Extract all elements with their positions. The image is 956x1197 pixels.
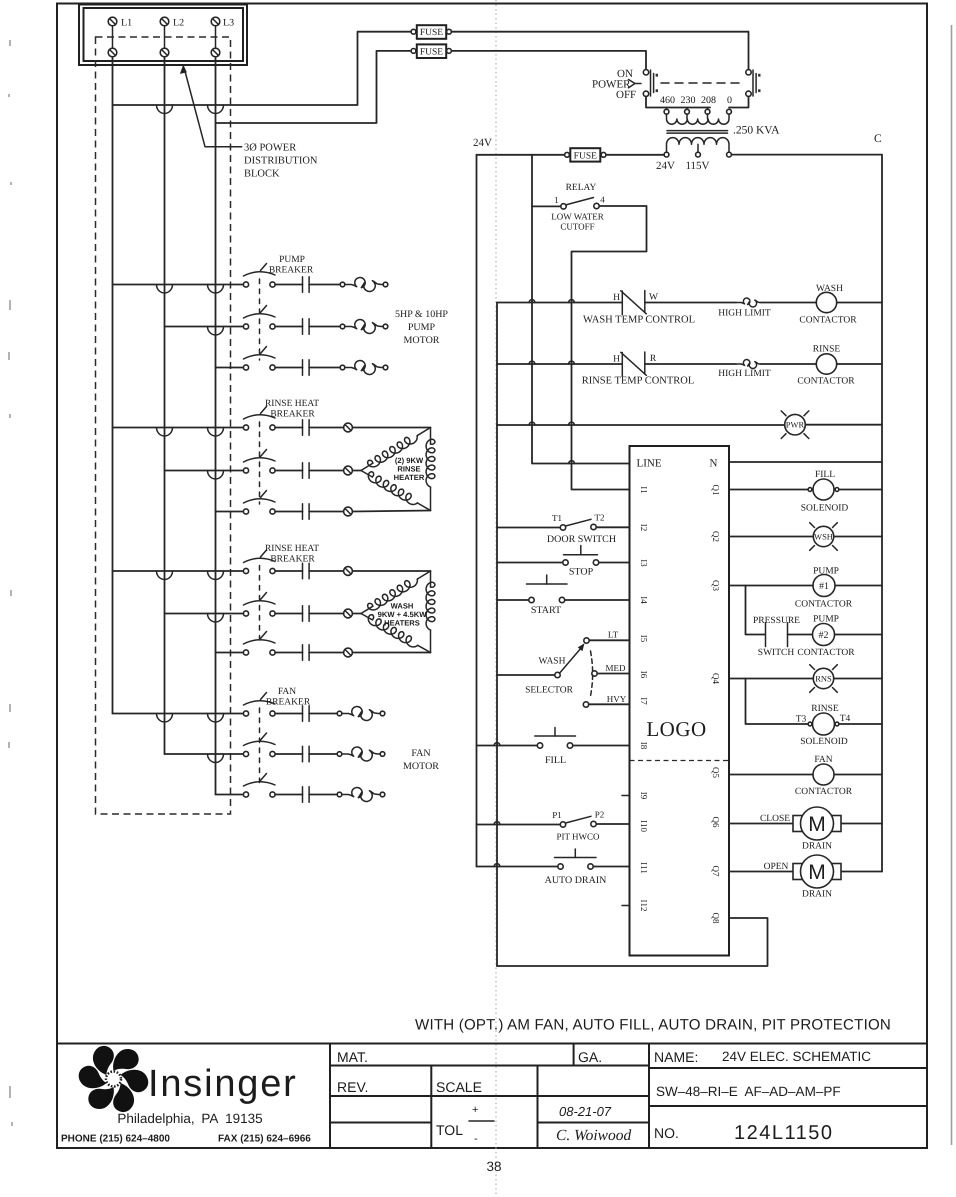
svg-text:Q4: Q4 [711, 673, 721, 684]
stub I9 [622, 795, 630, 797]
fan contact pole2 [275, 746, 337, 762]
wire secondary right to C rail [731, 155, 882, 872]
door switch row wire [497, 526, 630, 528]
svg-text:NO.: NO. [654, 1125, 679, 1141]
wire L1 bus vertical [112, 57, 114, 714]
svg-text:Q3: Q3 [711, 580, 721, 591]
svg-text:HEATERS: HEATERS [384, 619, 420, 628]
rinse heat contact pole2 [275, 463, 343, 479]
svg-text:AUTO DRAIN: AUTO DRAIN [545, 875, 607, 886]
label TOL [436, 1104, 494, 1145]
svg-text:4: 4 [600, 195, 605, 205]
Q8 return wire [497, 918, 768, 966]
svg-text:Q7: Q7 [711, 866, 721, 877]
rinse heater delta coil top side [361, 428, 431, 471]
svg-text:I2: I2 [639, 524, 649, 532]
wire row6 to delta [352, 511, 430, 512]
pump contact pole1 [275, 277, 340, 293]
start button row wire [497, 599, 630, 601]
insinger logo pinwheel [75, 1042, 152, 1116]
svg-text:T1: T1 [552, 513, 562, 523]
label PUMP BREAKER [269, 255, 314, 276]
start pushbutton NO [527, 575, 568, 603]
strap L1 [112, 26, 114, 48]
svg-text:Q5: Q5 [711, 767, 721, 778]
svg-text:Q6: Q6 [711, 817, 721, 828]
svg-text:HIGH LIMIT: HIGH LIMIT [718, 369, 771, 379]
svg-text:P2: P2 [595, 810, 605, 820]
svg-text:PRESSURE: PRESSURE [753, 616, 800, 626]
svg-text:460: 460 [660, 95, 675, 106]
svg-text:PHONE (215) 624–4800: PHONE (215) 624–4800 [61, 1134, 170, 1145]
rinse heat row6 bus wire [216, 511, 244, 513]
pump2 row wire [788, 634, 883, 636]
svg-text:CONTACTOR: CONTACTOR [797, 377, 855, 387]
wire 24V left rail [476, 155, 478, 867]
label POWER with pointer [592, 79, 641, 91]
svg-text:24V ELEC. SCHEMATIC: 24V ELEC. SCHEMATIC [722, 1049, 871, 1064]
pump breaker pole1 [243, 264, 275, 288]
svg-text:HVY: HVY [607, 694, 627, 704]
wash heater delta bottom side [361, 614, 431, 653]
power switch ON/OFF left pole [643, 70, 658, 97]
svg-text:BLOCK: BLOCK [244, 169, 280, 180]
svg-text:NAME:: NAME: [654, 1049, 698, 1065]
terminal row7 [344, 567, 353, 576]
svg-text:FUSE: FUSE [420, 28, 443, 38]
rinse temp control contact [621, 352, 647, 376]
fuse F1 [411, 25, 451, 39]
svg-text:CONTACTOR: CONTACTOR [795, 600, 853, 610]
svg-text:L1: L1 [121, 18, 132, 29]
svg-text:C: C [874, 133, 882, 145]
wire L3 bus vertical [215, 57, 217, 795]
svg-text:0: 0 [727, 95, 732, 106]
auto drain row wire [477, 866, 630, 868]
Q3 pump1 row wire [729, 585, 882, 587]
wash heat contact pole2 [275, 606, 343, 622]
terminal row4 [344, 423, 353, 432]
svg-text:RNS: RNS [815, 674, 832, 684]
svg-text:124L1150: 124L1150 [734, 1122, 834, 1144]
svg-text:#1: #1 [819, 581, 829, 592]
svg-text:PUMP: PUMP [813, 567, 839, 577]
wash selector row wire [497, 674, 555, 676]
svg-text:P1: P1 [552, 810, 562, 820]
svg-text:FUSE: FUSE [420, 47, 443, 57]
svg-text:FAN: FAN [411, 748, 430, 759]
LOGO PLC box [630, 446, 730, 956]
fan contact pole3 [275, 787, 337, 803]
svg-text:Q1: Q1 [711, 485, 721, 496]
fan contact pole1 [275, 706, 337, 722]
svg-text:PWR: PWR [786, 420, 805, 430]
wash selector common and arrow [555, 643, 585, 678]
fill pushbutton NO [535, 728, 576, 749]
stop pushbutton NC [563, 546, 599, 566]
transformer T1 primary taps [664, 108, 731, 115]
fan breaker pole3 [243, 774, 275, 798]
pump breaker pole tie dashed [259, 279, 261, 360]
svg-text:DISTRIBUTION: DISTRIBUTION [244, 156, 318, 167]
hop L3 row8 [208, 614, 224, 623]
svg-text:MOTOR: MOTOR [403, 761, 439, 772]
wire switch right pole to tap 0 [729, 97, 749, 108]
transformer T1 secondary winding [667, 138, 730, 152]
svg-text:RINSE HEAT: RINSE HEAT [265, 399, 319, 409]
svg-text:Insinger: Insinger [148, 1063, 298, 1105]
rinse heat breaker pole2 [243, 450, 275, 474]
wash contactor coil [816, 292, 836, 312]
wash heat contact pole1 [275, 563, 343, 579]
wire row7 to delta [352, 570, 430, 572]
wire rinse row middle [645, 363, 736, 365]
hop L3 row4 [208, 428, 224, 437]
hop at rail B pwr row [529, 422, 535, 425]
label LOW WATER CUTOFF [551, 212, 603, 232]
svg-text:115V: 115V [685, 160, 709, 172]
svg-text:CONTACTOR: CONTACTOR [795, 787, 853, 797]
pump1 contactor coil [813, 575, 835, 597]
svg-text:OFF: OFF [616, 89, 636, 101]
terminal row9 [344, 648, 353, 657]
svg-text:W: W [649, 293, 658, 303]
fan overload pole3 [337, 787, 385, 801]
svg-text:T4: T4 [840, 714, 851, 724]
relay contact low water cutoff [532, 198, 599, 210]
wash heat breaker pole2 [243, 593, 275, 617]
terminal row8 [344, 609, 353, 618]
branch wire to pump2 row [746, 586, 766, 635]
label 2x 9KW RINSE HEATER [394, 456, 425, 482]
high limit rinse [737, 360, 762, 369]
svg-text:FILL: FILL [815, 470, 835, 480]
svg-text:PIT HWCO: PIT HWCO [556, 832, 600, 842]
svg-text:PUMP: PUMP [408, 322, 436, 333]
wash heater delta right side [426, 571, 435, 653]
svg-text:08-21-07: 08-21-07 [559, 1104, 612, 1119]
pump contact pole3 [275, 360, 340, 376]
auto drain pushbutton NO [555, 849, 597, 869]
svg-text:RINSE TEMP CONTROL: RINSE TEMP CONTROL [582, 376, 695, 387]
wire rail B from fuse wire to LINE row [532, 155, 630, 464]
hop L2 row10 [157, 714, 173, 723]
wire common rail D [496, 303, 498, 967]
wash heater delta top side [361, 571, 431, 614]
svg-text:LOW WATER: LOW WATER [551, 212, 603, 222]
svg-text:1: 1 [554, 195, 559, 205]
svg-text:SELECTOR: SELECTOR [525, 686, 574, 696]
label phone fax [61, 1134, 311, 1145]
svg-text:CONTACTOR: CONTACTOR [799, 316, 857, 326]
hop at common rail pit row [494, 822, 500, 825]
svg-text:CLOSE: CLOSE [760, 814, 790, 824]
svg-text:208: 208 [701, 95, 716, 106]
strap L3 [215, 26, 217, 48]
hop L3 row5 [208, 471, 224, 480]
door switch T1 T2 [560, 519, 596, 530]
wash heat row9 bus wire [216, 652, 244, 654]
svg-text:230: 230 [681, 95, 696, 106]
wire wash contactor to C rail [837, 302, 882, 304]
svg-text:SW–48–RI–E AF–AD–AM–PF: SW–48–RI–E AF–AD–AM–PF [656, 1084, 841, 1099]
svg-text:I3: I3 [639, 559, 649, 567]
terminal L2 bottom [160, 48, 169, 57]
svg-text:FAX (215) 624–6966: FAX (215) 624–6966 [218, 1134, 311, 1145]
fuse F3 [565, 148, 606, 161]
terminal L1 top [108, 17, 117, 26]
rinse heat contact pole3 [275, 504, 343, 520]
crossover hop L2 on L1 feed [157, 105, 173, 114]
scan fold dotted line [495, 0, 497, 1197]
fan overload pole2 [337, 747, 385, 761]
hop L3 row1 [208, 285, 224, 294]
pressure switch contact [766, 623, 788, 647]
svg-text:GA.: GA. [578, 1049, 602, 1065]
pump2 contactor coil [813, 624, 835, 646]
fill solenoid [808, 479, 839, 500]
wire fuse1 to switch right pole [451, 32, 748, 70]
svg-text:-: - [474, 1133, 478, 1145]
N row wire [729, 461, 882, 463]
svg-text:I5: I5 [639, 635, 649, 643]
hop L3 row11 [208, 754, 224, 763]
hop at rail B rinse row [529, 361, 535, 364]
fill button row wire [477, 745, 630, 747]
svg-text:L3: L3 [223, 18, 234, 29]
open drain motor [793, 855, 841, 888]
rinse heat contact pole1 [275, 420, 343, 436]
svg-text:Philadelphia, PA 19135: Philadelphia, PA 19135 [117, 1111, 262, 1126]
transformer T1 primary winding [667, 114, 730, 124]
hop L2 row1 [157, 285, 173, 294]
svg-text:SOLENOID: SOLENOID [801, 504, 849, 514]
fan breaker pole1 [243, 693, 275, 717]
svg-text:FILL: FILL [545, 755, 566, 766]
Q7 open drain row wire [729, 871, 882, 873]
hop at relay rail wash row [569, 300, 575, 303]
pump breaker pole2 [243, 306, 275, 330]
fan contactor coil [813, 764, 834, 785]
wash temp control row wire left [497, 302, 622, 304]
svg-text:RINSE: RINSE [813, 345, 841, 355]
label RINSE HEAT BREAKER [265, 399, 319, 420]
crossover hop on LINE row at relay rail [569, 461, 575, 464]
svg-text:DRAIN: DRAIN [802, 890, 832, 900]
Q6 close drain row wire [729, 823, 882, 825]
transformer secondary terminals [664, 152, 731, 157]
selector LT contact [584, 638, 630, 643]
wire switch left pole to primary taps bar [646, 97, 710, 108]
wire wash row middle [645, 302, 736, 304]
svg-text:Q8: Q8 [711, 913, 721, 924]
wire row8 to delta [352, 613, 361, 615]
hop at relay rail pwr row [569, 422, 575, 425]
svg-text:CUTOFF: CUTOFF [560, 222, 594, 232]
leader arrow to distribution block [180, 65, 242, 147]
svg-text:SOLENOID: SOLENOID [800, 737, 848, 747]
rinse heat breaker2 pole tie dashed [259, 566, 261, 646]
svg-text:LINE: LINE [637, 458, 662, 470]
pump overload pole3 [340, 360, 388, 374]
pump overload pole1 [340, 277, 388, 291]
selector HVY contact [583, 702, 629, 707]
scan page right edge line [951, 25, 953, 1145]
rinse contactor coil [816, 354, 836, 374]
svg-text:I9: I9 [639, 792, 649, 800]
terminal row6 [344, 507, 353, 516]
svg-text:STOP: STOP [569, 567, 594, 578]
3-phase power distribution block inner box [84, 8, 244, 61]
svg-text:+: + [472, 1104, 478, 1116]
svg-text:#2: #2 [819, 630, 829, 641]
pit hwco row wire [477, 823, 630, 826]
rinse heat row5 bus wire [165, 470, 244, 472]
wash heat contact pole3 [275, 645, 343, 661]
crossover hop L3 on L1 feed [208, 105, 224, 114]
hop at rail B wash row [529, 300, 535, 303]
svg-text:PUMP: PUMP [279, 255, 305, 265]
scan specks left margin [9, 40, 12, 1126]
svg-text:MOTOR: MOTOR [404, 335, 440, 346]
svg-text:24V: 24V [473, 137, 492, 149]
svg-text:FAN: FAN [814, 755, 832, 765]
pit hwco switch P1 P2 [560, 816, 596, 827]
svg-text:H: H [613, 293, 620, 303]
pump breaker pole3 [243, 347, 275, 371]
wire fuse2 to switch left pole [451, 51, 646, 70]
pump row2 bus wire [165, 326, 244, 328]
svg-text:3Ø POWER: 3Ø POWER [244, 143, 296, 154]
Q1 fill solenoid row wire [729, 489, 882, 491]
svg-text:Q2: Q2 [711, 531, 721, 542]
Q2 wsh lamp row wire [729, 536, 882, 538]
svg-text:I1: I1 [639, 486, 649, 494]
wire row4 to delta [352, 427, 430, 429]
svg-text:38: 38 [486, 1159, 501, 1174]
wire relay output to I1 rail [572, 206, 647, 490]
hop L3 row7 [208, 571, 224, 580]
terminal L1 bottom [108, 48, 117, 57]
pwr lamp row wire left [497, 424, 784, 426]
label FAN BREAKER [266, 687, 311, 708]
svg-text:HIGH LIMIT: HIGH LIMIT [718, 309, 771, 319]
hop at common rail fill row [494, 743, 500, 746]
svg-text:C. Woiwood: C. Woiwood [556, 1127, 631, 1144]
label 3-phase power distribution block [244, 143, 318, 180]
rinse temp control row wire left [497, 363, 622, 365]
wire rinse solenoid to C rail [839, 723, 882, 725]
hop L3 row10 [208, 714, 224, 723]
svg-text:WITH (OPT.) AM FAN, AUTO FILL,: WITH (OPT.) AM FAN, AUTO FILL, AUTO DRAI… [415, 1017, 891, 1034]
selector position dashed arc [590, 651, 593, 699]
fan breaker pole2 [243, 733, 275, 757]
wire fuse3 to 24V rail [477, 154, 565, 156]
hop at common rail auto drain row [494, 864, 500, 867]
fan row10 bus wire [113, 713, 244, 715]
svg-text:I7: I7 [639, 697, 649, 705]
svg-text:WASH: WASH [539, 657, 566, 667]
svg-text:I4: I4 [639, 596, 649, 604]
svg-text:LT: LT [608, 630, 619, 640]
svg-text:WSH: WSH [814, 532, 833, 542]
rinse heat breaker pole tie dashed [259, 422, 261, 504]
wire row5 to delta [352, 470, 361, 472]
svg-text:WASH TEMP CONTROL: WASH TEMP CONTROL [583, 315, 695, 326]
wire wash row to contactor [761, 302, 816, 304]
wash temp control contact [621, 291, 647, 315]
svg-text:I11: I11 [639, 862, 649, 874]
svg-text:I6: I6 [639, 671, 649, 679]
svg-text:DRAIN: DRAIN [802, 842, 832, 852]
svg-text:BREAKER: BREAKER [270, 410, 315, 420]
svg-text:OPEN: OPEN [764, 862, 789, 872]
svg-text:BREAKER: BREAKER [269, 266, 314, 276]
terminal L3 bottom [211, 48, 220, 57]
Q4 rns lamp row wire [729, 678, 882, 680]
wire secondary to fuse 3 [606, 154, 664, 156]
svg-text:MED: MED [606, 663, 627, 673]
hop L2 row4 [157, 428, 173, 437]
terminal row5 [344, 466, 353, 475]
svg-text:TOL: TOL [436, 1122, 463, 1138]
dashed enclosure boundary [96, 37, 231, 814]
rinse heater delta right side [426, 428, 435, 511]
svg-text:CONTACTOR: CONTACTOR [797, 648, 855, 658]
terminal L2 top [160, 17, 169, 26]
rinse heat breaker pole1 [243, 407, 275, 431]
svg-text:FUSE: FUSE [574, 151, 597, 161]
svg-text:.250 KVA: .250 KVA [733, 125, 780, 137]
svg-text:5HP & 10HP: 5HP & 10HP [395, 309, 448, 320]
svg-text:RINSE: RINSE [811, 704, 839, 714]
svg-text:RINSE HEAT: RINSE HEAT [265, 544, 319, 554]
pump contact pole2 [275, 319, 340, 335]
svg-text:I8: I8 [639, 742, 649, 750]
fuse F2 [411, 44, 451, 58]
fan row12 bus wire [216, 794, 244, 796]
svg-text:BREAKER: BREAKER [266, 698, 311, 708]
selector MED contact [592, 671, 630, 676]
rinse heat row4 bus wire [113, 427, 244, 429]
strap L2 [164, 26, 166, 48]
rinse solenoid [808, 713, 839, 735]
svg-text:PUMP: PUMP [813, 615, 839, 625]
wash heat breaker pole3 [243, 632, 275, 656]
svg-text:RELAY: RELAY [566, 183, 597, 193]
hop L3 row2 [208, 327, 224, 336]
svg-text:I10: I10 [639, 820, 649, 832]
svg-text:H: H [613, 355, 620, 365]
label WASH 9KW 4.5KW HEATERS [378, 602, 428, 628]
3-phase power distribution block outer box [79, 5, 247, 66]
pump row1 bus wire [113, 284, 244, 286]
svg-text:START: START [531, 605, 561, 616]
wire L2 bus vertical [164, 57, 166, 754]
rinse heater delta bottom side [361, 471, 431, 511]
wire rinse row to contactor [761, 363, 816, 365]
svg-text:I12: I12 [639, 900, 649, 912]
svg-text:WASH: WASH [816, 284, 843, 294]
svg-text:LOGO: LOGO [646, 717, 706, 741]
transformer T1 core [667, 131, 728, 134]
power switch ON/OFF right pole [746, 70, 761, 97]
pump overload pole2 [340, 319, 388, 333]
Q5 fan contactor row wire [729, 774, 882, 776]
svg-text:R: R [650, 354, 657, 364]
fan row11 bus wire [165, 753, 244, 755]
WSH pilot lamp [810, 523, 838, 551]
